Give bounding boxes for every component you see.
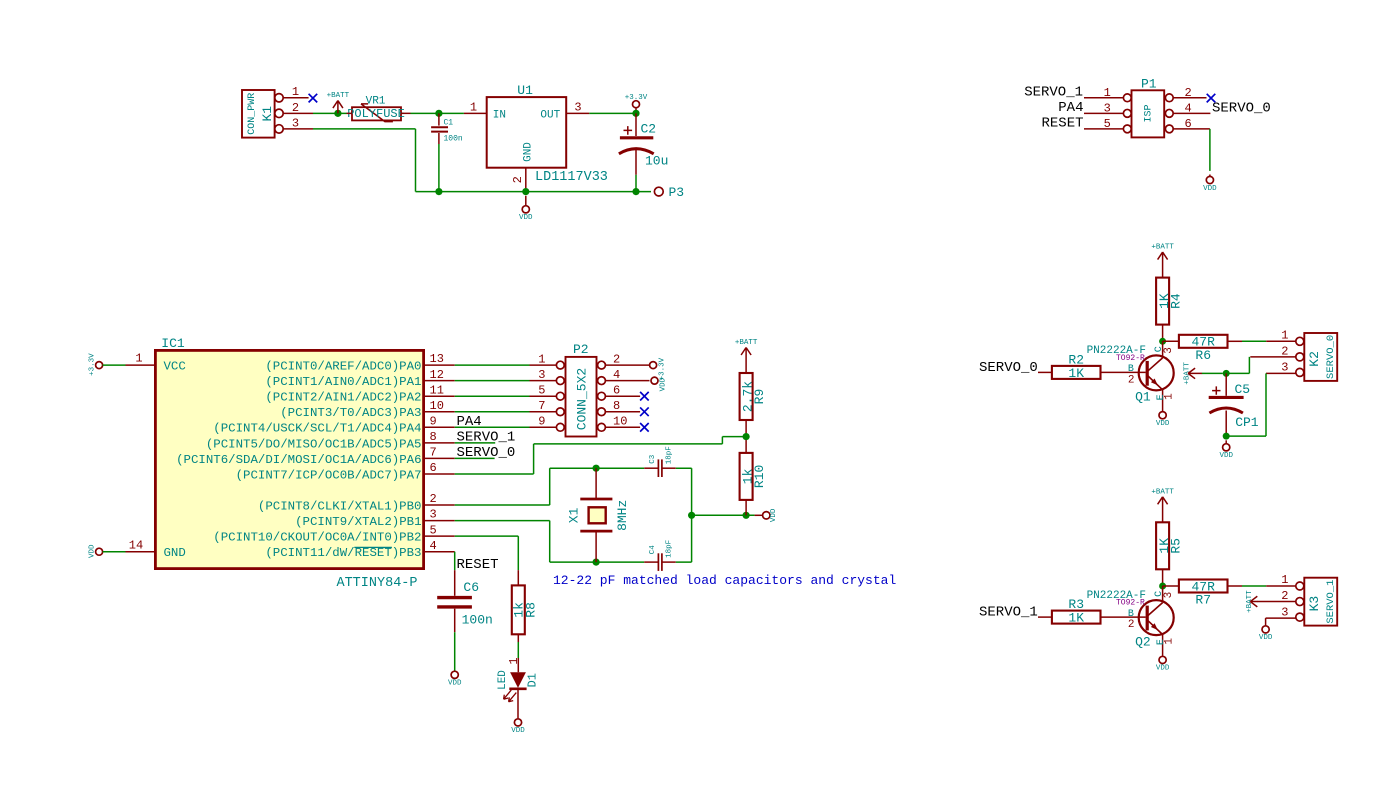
IC1 pin 12 [424, 380, 455, 382]
no-connect X on K1 pin 1 [309, 94, 318, 103]
wire R6 to K2 pin 1 [1228, 340, 1243, 342]
svg-text:1K: 1K [1068, 611, 1084, 626]
svg-text:2: 2 [1128, 619, 1135, 631]
wire PB0 (pin 2) to crystal top rail [455, 504, 550, 506]
svg-text:ISP: ISP [1143, 104, 1154, 122]
IC1 pin 7 [424, 457, 455, 459]
svg-text:3: 3 [1104, 101, 1111, 115]
svg-text:3: 3 [430, 508, 437, 522]
wire K1 pin2 to VR1 [313, 112, 347, 114]
right rail wire (cap common) [691, 468, 693, 562]
svg-text:(PCINT4/USCK/SCL/T1/ADC4)PA4: (PCINT4/USCK/SCL/T1/ADC4)PA4 [213, 422, 421, 436]
power VDD (under D1) [514, 719, 521, 726]
connector K2 (SERVO_0) [1304, 333, 1337, 381]
junction divider [743, 433, 750, 440]
wire C3 to right rail [676, 467, 692, 469]
IC1 pin 6 [424, 473, 455, 475]
regulator U1 LD1117V33 [487, 97, 567, 168]
no-connect X on P1 pin 2 [1207, 94, 1216, 103]
svg-text:C6: C6 [463, 580, 479, 595]
junction C2 bottom on rail [632, 188, 639, 195]
wire PB3 (pin 4) to C6 [454, 552, 456, 571]
wire R2 to base [1101, 371, 1146, 373]
P1 pin 6 [1173, 128, 1210, 130]
svg-text:CP1: CP1 [1235, 415, 1259, 430]
power VDD (at P1) [1209, 175, 1211, 177]
svg-text:11: 11 [430, 383, 444, 397]
svg-text:R2: R2 [1068, 352, 1084, 367]
U1 pin 1 IN [464, 112, 487, 114]
power VDD (under U1) [525, 196, 527, 206]
svg-text:C2: C2 [641, 121, 657, 136]
wire +3.3V to IC1 VCC [103, 364, 126, 366]
junction collector node [1159, 338, 1166, 345]
transistor Q2 PN2222A-F [1139, 600, 1174, 635]
P2 pin 1 [530, 364, 557, 366]
wire PA7 (pin 6) to R9/R10 divider [455, 473, 534, 475]
resistor R7 (47R) [1179, 580, 1228, 593]
resistor R8 (1k) [517, 570, 519, 585]
power +BATT (at K1) [333, 101, 343, 114]
wire P1 pin6 to VDD [1209, 129, 1211, 171]
resistor R6 (47R) [1179, 335, 1228, 348]
IC1 PB3 RESET overline [354, 546, 392, 548]
wire C1 to ground rail [438, 144, 440, 192]
P2 pin 3 [530, 380, 557, 382]
svg-text:1: 1 [292, 85, 299, 99]
svg-text:D1: D1 [525, 673, 539, 687]
svg-text:R4: R4 [1168, 293, 1183, 309]
svg-text:(PCINT2/AIN1/ADC2)PA2: (PCINT2/AIN1/ADC2)PA2 [265, 391, 421, 405]
svg-text:6: 6 [1185, 117, 1192, 131]
svg-text:18pF: 18pF [666, 540, 674, 558]
C4 right pin [662, 561, 676, 563]
svg-text:PA4: PA4 [1058, 100, 1083, 116]
U1 pin 3 OUT [566, 112, 589, 114]
svg-text:SERVO_0: SERVO_0 [979, 360, 1038, 376]
svg-text:8: 8 [613, 399, 620, 413]
svg-text:1: 1 [538, 352, 545, 366]
svg-text:3: 3 [1281, 361, 1288, 375]
svg-text:18pF: 18pF [666, 446, 674, 464]
svg-text:(PCINT10/CKOUT/OC0A/INT0)PB2: (PCINT10/CKOUT/OC0A/INT0)PB2 [213, 531, 421, 545]
connector K1 (CON_PWR) [242, 90, 275, 138]
junction right rail [688, 512, 695, 519]
svg-text:SERVO_0: SERVO_0 [1212, 101, 1271, 117]
P2 pin 6 [605, 395, 640, 397]
capacitor C6 (100n) [454, 570, 456, 596]
IC1 pin 9 [424, 426, 455, 428]
IC1 pin 14 GND [126, 551, 156, 553]
svg-text:+BATT: +BATT [1246, 590, 1254, 613]
svg-text:3: 3 [574, 101, 581, 115]
svg-text:R10: R10 [752, 465, 767, 488]
svg-text:R5: R5 [1168, 538, 1183, 554]
wire R7 to K3 pin 1 [1228, 585, 1243, 587]
svg-text:VDD: VDD [1156, 665, 1170, 673]
svg-text:R7: R7 [1195, 593, 1211, 608]
svg-text:P1: P1 [1141, 77, 1157, 92]
svg-text:100n: 100n [462, 612, 493, 627]
svg-text:K2: K2 [1307, 351, 1322, 367]
svg-text:+3.3V: +3.3V [89, 353, 97, 376]
resistor R2 (1K) [1052, 366, 1101, 379]
svg-text:OUT: OUT [540, 110, 560, 122]
P2 pin 7 [530, 411, 557, 413]
C4 left pin [644, 561, 658, 563]
junction R10 bottom [743, 512, 750, 519]
svg-text:(PCINT9/XTAL2)PB1: (PCINT9/XTAL2)PB1 [295, 515, 421, 529]
power VDD (emitter Q1) [1159, 412, 1166, 419]
svg-text:VDD: VDD [1259, 634, 1273, 642]
svg-text:LED: LED [497, 670, 509, 690]
LED D1 [517, 658, 519, 672]
svg-text:7: 7 [538, 399, 545, 413]
svg-text:2: 2 [511, 176, 525, 183]
svg-text:8: 8 [430, 430, 437, 444]
svg-text:POLYFUSE: POLYFUSE [347, 107, 405, 121]
svg-text:TO92-R: TO92-R [1116, 599, 1145, 608]
svg-text:3: 3 [538, 368, 545, 382]
svg-text:5: 5 [1104, 117, 1111, 131]
power VDD (emitter Q2) [1159, 656, 1166, 663]
svg-text:VR1: VR1 [366, 95, 386, 107]
svg-text:10u: 10u [645, 154, 668, 169]
wire IC1 to P2 row 4 [455, 411, 530, 413]
power VDD (at K pin3) [1262, 626, 1269, 633]
power +BATT (above R5) [1158, 497, 1168, 523]
power VDD (at P2 pin 4) [651, 377, 658, 384]
wire IC1 to P2 row 1 [455, 364, 530, 366]
svg-text:R8: R8 [524, 602, 539, 618]
IC1 pin 4 [424, 551, 455, 553]
svg-text:5: 5 [430, 523, 437, 537]
wire VR1 to C1/U1 node [411, 112, 464, 114]
svg-text:C5: C5 [1235, 382, 1251, 397]
svg-text:+3.3V: +3.3V [625, 94, 648, 102]
svg-text:13: 13 [430, 352, 444, 366]
svg-text:2: 2 [292, 101, 299, 115]
resistor R10 (1k) [740, 453, 753, 500]
connector P1 (ISP) [1132, 90, 1165, 137]
svg-text:1: 1 [135, 352, 142, 366]
svg-text:1: 1 [1163, 638, 1175, 645]
svg-text:3: 3 [1163, 347, 1175, 354]
svg-text:4: 4 [1185, 101, 1192, 115]
wire SERVO_0 to R2 [1038, 371, 1052, 373]
svg-text:(PCINT1/AIN0/ADC1)PA1: (PCINT1/AIN0/ADC1)PA1 [265, 375, 421, 389]
wire C6 to VDD [454, 632, 456, 671]
wire IC1 to P2 row 2 [455, 380, 530, 382]
IC1 pin 11 [424, 395, 455, 397]
svg-text:IN: IN [493, 110, 506, 122]
svg-text:(PCINT6/SDA/DI/MOSI/OC1A/ADC6): (PCINT6/SDA/DI/MOSI/OC1A/ADC6)PA6 [176, 453, 421, 467]
IC1 pin 10 [424, 411, 455, 413]
svg-text:CONN_5X2: CONN_5X2 [574, 368, 589, 430]
svg-text:3: 3 [292, 116, 299, 130]
svg-text:2: 2 [1128, 375, 1135, 387]
svg-text:X1: X1 [566, 507, 581, 523]
capacitor C3 (18pF) [657, 459, 659, 477]
power +BATT (servo supply) [1250, 596, 1258, 607]
P1 pin 3 [1084, 112, 1123, 114]
svg-text:3: 3 [1163, 592, 1175, 599]
K1 pin 3 [283, 128, 313, 130]
svg-text:C4: C4 [649, 545, 657, 555]
power VDD (under C6) [451, 671, 458, 678]
svg-text:4: 4 [613, 368, 620, 382]
svg-text:1: 1 [507, 657, 521, 664]
svg-text:RESET: RESET [457, 557, 499, 573]
power +BATT (above R9) [741, 348, 751, 374]
capacitor C1 [438, 113, 440, 125]
capacitor C5/CP1 (polarized) [1225, 373, 1227, 395]
svg-text:R9: R9 [752, 389, 767, 405]
svg-text:8MHz: 8MHz [615, 500, 630, 531]
wire SERVO_1 stub [455, 442, 496, 444]
svg-text:VDD: VDD [519, 214, 533, 222]
power VDD (under CP1) [1225, 440, 1227, 444]
svg-text:C1: C1 [444, 119, 454, 128]
IC1 pin 13 [424, 364, 455, 366]
svg-text:SERVO_1: SERVO_1 [1325, 580, 1337, 624]
power +BATT (servo supply) [1188, 368, 1202, 379]
K1 pin 1 [283, 97, 308, 99]
svg-text:9: 9 [538, 415, 545, 429]
K2 pin 1 [1266, 340, 1296, 342]
junction +3.3V / C2 [632, 110, 639, 117]
U1 pin 2 GND [525, 168, 527, 192]
svg-text:+BATT: +BATT [1151, 244, 1174, 252]
junction C1 bottom [435, 188, 442, 195]
svg-text:100n: 100n [444, 134, 463, 143]
svg-text:(PCINT7/ICP/OC0B/ADC7)PA7: (PCINT7/ICP/OC0B/ADC7)PA7 [236, 468, 422, 482]
wire IC1 to P2 row 5 [455, 426, 530, 428]
junction +BATT node [334, 110, 341, 117]
junction crystal top [593, 465, 600, 472]
svg-text:(PCINT8/CLKI/XTAL1)PB0: (PCINT8/CLKI/XTAL1)PB0 [258, 499, 422, 513]
wire R10 to VDD rail [745, 500, 747, 515]
svg-text:10: 10 [613, 415, 627, 429]
VR1 right pin [401, 112, 411, 114]
svg-text:1: 1 [1163, 393, 1175, 400]
C3 left pin [644, 467, 658, 469]
power +3.3V (at U1 OUT) [633, 101, 640, 108]
svg-text:4: 4 [430, 539, 437, 553]
crystal X1 8MHz [595, 468, 597, 499]
svg-text:P3: P3 [669, 185, 685, 200]
wire C4 to right rail [676, 561, 692, 563]
svg-text:IC1: IC1 [161, 336, 185, 351]
svg-text:GND: GND [522, 142, 534, 162]
svg-text:12-22 pF matched load capacito: 12-22 pF matched load capacitors and cry… [553, 573, 896, 588]
wire R3 to base [1101, 616, 1146, 618]
resistor R5 (1K) [1156, 522, 1169, 569]
power +3.3V (at P2 pin 2) [650, 362, 657, 369]
wire IC1 to P2 row 3 [455, 395, 530, 397]
svg-text:C3: C3 [649, 454, 657, 464]
junction CP1 bottom [1223, 433, 1230, 440]
svg-text:R6: R6 [1195, 348, 1211, 363]
svg-text:6: 6 [613, 384, 620, 398]
svg-text:(PCINT5/DO/MISO/OC1B/ADC5)PA5: (PCINT5/DO/MISO/OC1B/ADC5)PA5 [206, 437, 422, 451]
no-connect X on P2 pin 10 [640, 423, 649, 432]
power VDD (at divider) [755, 514, 763, 516]
IC1 pin 8 [424, 442, 455, 444]
svg-text:VDD: VDD [770, 508, 778, 522]
power +BATT (above R4) [1158, 252, 1168, 278]
transistor Q1 PN2222A-F [1139, 355, 1174, 390]
IC IC1 ATTINY84-P body [155, 350, 423, 568]
P2 pin 2 [605, 364, 649, 366]
svg-text:SERVO_1: SERVO_1 [1024, 84, 1083, 100]
svg-text:CON_PWR: CON_PWR [247, 93, 258, 135]
K3 pin 1 [1266, 585, 1296, 587]
svg-text:1K: 1K [1068, 366, 1084, 381]
wire SERVO_1 to R3 [1038, 616, 1052, 618]
svg-text:SERVO_0: SERVO_0 [1325, 335, 1337, 379]
power VDD (at IC1 GND) [96, 548, 103, 555]
C3 right pin [662, 467, 676, 469]
connector P2 (CONN_5X2) [566, 357, 597, 437]
svg-text:VDD: VDD [1203, 185, 1217, 193]
P1 pin 4 [1173, 112, 1210, 114]
svg-text:VDD: VDD [511, 727, 525, 735]
svg-text:+BATT: +BATT [735, 339, 758, 347]
svg-text:R3: R3 [1068, 597, 1084, 612]
svg-text:3: 3 [1281, 605, 1288, 619]
svg-text:VDD: VDD [89, 544, 97, 558]
capacitor C4 (18pF) [657, 553, 659, 571]
junction C5 top [1223, 370, 1230, 377]
wire R4 to collector [1162, 325, 1164, 342]
svg-text:K3: K3 [1307, 596, 1322, 612]
P1 pin 1 [1084, 97, 1123, 99]
wire VDD to IC1 GND [103, 551, 126, 553]
wire SERVO_0 stub [455, 457, 495, 459]
wire R8 to LED [517, 642, 519, 658]
svg-text:+BATT: +BATT [1151, 488, 1174, 496]
svg-text:TO92-R: TO92-R [1116, 354, 1145, 363]
svg-text:1: 1 [1281, 573, 1288, 587]
no-connect X on P2 pin 6 [640, 392, 649, 401]
ground rail wire (top-left) [416, 191, 652, 193]
svg-text:1: 1 [1104, 86, 1111, 100]
svg-text:VDD: VDD [1219, 452, 1233, 460]
svg-text:U1: U1 [517, 83, 533, 98]
P1 pin 5 [1084, 128, 1123, 130]
P2 pin 8 [605, 411, 640, 413]
resistor R4 (1K) [1156, 278, 1169, 325]
junction C1 top [435, 110, 442, 117]
svg-text:10: 10 [430, 399, 444, 413]
svg-text:VDD: VDD [448, 680, 462, 688]
junction U1 GND on rail [522, 188, 529, 195]
svg-text:PA4: PA4 [457, 414, 482, 430]
svg-text:6: 6 [430, 461, 437, 475]
wire U1 OUT to +3.3V node [589, 112, 636, 114]
svg-text:+3.3V: +3.3V [658, 357, 666, 380]
P1 pin 2 [1173, 97, 1206, 99]
svg-text:VCC: VCC [164, 360, 186, 374]
svg-text:VDD: VDD [660, 377, 668, 391]
IC1 pin 2 [424, 504, 455, 506]
wire K1 pin3 to ground rail [313, 128, 416, 130]
polyfuse VR1 [352, 107, 401, 120]
IC1 pin 3 [424, 520, 455, 522]
svg-text:(PCINT11/dW/RESET)PB3: (PCINT11/dW/RESET)PB3 [265, 546, 421, 560]
svg-text:VDD: VDD [1156, 420, 1170, 428]
svg-text:LD1117V33: LD1117V33 [535, 170, 608, 185]
K1 pin 2 [283, 112, 313, 114]
svg-text:1: 1 [1281, 328, 1288, 342]
svg-text:GND: GND [164, 546, 186, 560]
power +3.3V (at IC1 VCC) [96, 362, 103, 369]
wire right rail to R10 bottom / VDD [692, 514, 755, 516]
svg-text:9: 9 [430, 414, 437, 428]
svg-text:RESET: RESET [1041, 116, 1083, 132]
svg-text:(PCINT0/AREF/ADC0)PA0: (PCINT0/AREF/ADC0)PA0 [265, 360, 421, 374]
svg-text:2: 2 [613, 352, 620, 366]
junction crystal bottom [593, 559, 600, 566]
svg-text:12: 12 [430, 368, 444, 382]
resistor R3 (1K) [1052, 611, 1101, 624]
P2 pin 9 [530, 426, 557, 428]
resistor R9 (2.7k) [740, 373, 753, 420]
svg-text:(PCINT3/T0/ADC3)PA3: (PCINT3/T0/ADC3)PA3 [280, 406, 421, 420]
capacitor C2 (10u) [635, 113, 637, 136]
svg-text:1: 1 [470, 101, 477, 115]
P2 pin 4 [605, 380, 649, 382]
svg-text:2: 2 [1185, 86, 1192, 100]
P2 pin 10 [605, 426, 640, 428]
svg-text:Q2: Q2 [1135, 634, 1151, 649]
wire R5 to collector [1162, 569, 1164, 586]
svg-text:K1: K1 [260, 106, 275, 122]
svg-text:SERVO_1: SERVO_1 [979, 605, 1038, 621]
svg-text:5: 5 [538, 384, 545, 398]
junction collector node [1159, 583, 1166, 590]
wire R9 to junction [745, 420, 747, 453]
svg-text:7: 7 [430, 446, 437, 460]
IC1 pin 1 VCC [126, 364, 156, 366]
svg-text:+BATT: +BATT [1184, 362, 1192, 385]
svg-text:14: 14 [129, 538, 143, 552]
svg-text:P2: P2 [573, 342, 589, 357]
wire PB2 (pin 5) to R8 [455, 535, 519, 537]
wire PB1 (pin 3) to crystal bottom rail [455, 520, 550, 522]
terminal P3 [654, 187, 663, 196]
connector K3 (SERVO_1) [1304, 578, 1337, 626]
P2 pin 5 [530, 395, 557, 397]
svg-text:2: 2 [430, 492, 437, 506]
no-connect X on P2 pin 8 [640, 407, 649, 416]
svg-text:ATTINY84-P: ATTINY84-P [336, 576, 417, 591]
svg-text:+BATT: +BATT [327, 92, 350, 100]
svg-text:Q1: Q1 [1135, 390, 1151, 405]
IC1 pin 5 [424, 535, 455, 537]
